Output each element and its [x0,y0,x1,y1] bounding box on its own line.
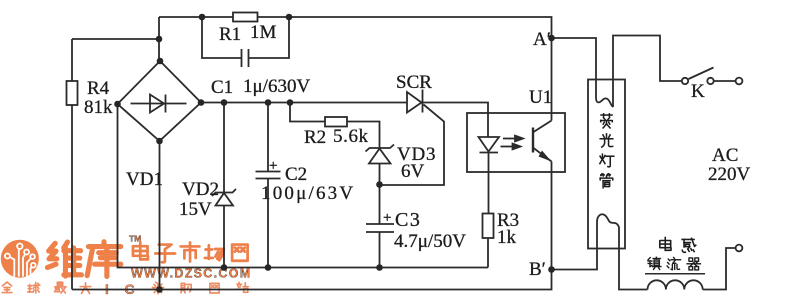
junction: C2 bottom junction [265,264,272,271]
wire VD2 branch [223,103,225,268]
wire SCR gate [380,105,445,186]
watermark slogan [2,282,12,292]
ballast underline [645,273,705,275]
junction: bridge right vertex [198,99,205,106]
wire lamp right pin to switch [613,36,682,108]
capacitor C2 plates [256,172,281,179]
svg-text:R4: R4 [87,78,110,99]
wire ballast to AC terminal [703,248,736,290]
svg-text:AC: AC [712,145,738,166]
watermark 维库 [47,242,81,276]
junction: R2 tap junction [287,99,294,106]
zener VD3 [369,149,391,164]
wire bottom AC rail to B' [72,162,552,290]
svg-text:R2: R2 [304,127,326,148]
svg-text:C2: C2 [285,164,307,185]
wire top rail [159,17,552,121]
svg-text:C1: C1 [211,77,233,98]
junction: VD2 top junction [221,99,228,106]
svg-text:5.6k: 5.6k [333,126,369,147]
wire B' to lamp [552,222,598,270]
svg-text:1μ/630V: 1μ/630V [243,76,310,97]
capacitor C3 plates [366,224,394,232]
wire R4 column [71,39,73,290]
svg-text:1M: 1M [250,22,277,43]
junction: node A' [548,35,555,42]
junction: R1C1 left node [199,14,206,21]
wire R1C1 left drop [202,17,242,58]
AC terminal bottom [736,245,743,252]
tube bottom filament [597,214,619,248]
junction: VD3-C3 node [376,181,383,188]
bridge rectifier VD1 diamond [118,61,202,141]
junction: bridge top vertex [157,58,164,65]
svg-text:VD2: VD2 [182,179,219,200]
U1 phototransistor [532,128,534,153]
wire R4 top link [72,38,159,40]
junction: C3 bottom junction [376,264,383,271]
U1 LED [479,137,500,152]
wire VD3-C3 column [379,164,381,268]
wire C2 branch [267,103,269,268]
svg-text:+: + [383,210,391,226]
switch K contacts and blade [682,78,688,84]
svg-text:1k: 1k [497,227,517,248]
junction: AC line junction [156,286,163,293]
svg-text:A′: A′ [533,29,551,50]
junction: node B' [548,266,555,273]
svg-text:K: K [691,81,705,102]
bridge inner diode [131,103,187,105]
tube top filament [596,80,613,108]
junction: R1C1 right node [286,14,293,21]
svg-text:81k: 81k [84,97,113,118]
junction: bridge left vertex [114,101,121,108]
svg-text:100μ/63V: 100μ/63V [261,183,355,204]
wire R2 tap [290,103,380,149]
resistor R2 body [325,117,347,127]
junction: bridge bottom vertex [156,138,163,145]
resistor R4 body [67,81,78,105]
fluorescent tube body [588,80,625,249]
wire R1C1 right drop [249,17,290,58]
resistor R1 body [233,13,258,22]
svg-text:220V: 220V [708,164,751,185]
zener VD2 [216,193,234,206]
svg-text:+: + [269,158,277,174]
wire bridge top drop [158,17,160,61]
AC terminal top [736,78,743,85]
svg-text:4.7μ/50V: 4.7μ/50V [394,231,466,252]
watermark logo circle [1,240,39,278]
watermark 电子市场网 [133,242,148,259]
U1 arrows [501,136,524,150]
label fluorescent tube 荧光灯管 [601,114,613,128]
wire main dc rail [201,103,488,138]
junction: VD2 bottom junction [221,264,228,271]
resistor R3 body [483,214,494,239]
svg-text:U1: U1 [529,87,552,108]
svg-text:B′: B′ [529,259,546,280]
SCR symbol [407,92,422,113]
optocoupler U1 box [467,113,565,172]
wire lamp bottom right pin to ballast [619,228,648,290]
label ballast 镇流器 [648,257,661,269]
inductor ballast coil [648,280,703,289]
svg-text:SCR: SCR [396,72,432,93]
wire bridge bottom drop [159,141,161,290]
svg-text:VD1: VD1 [126,169,163,190]
wire LED cathode to R3 [487,153,490,268]
wire bridge left to ground rail [118,104,489,268]
junction: C2 top junction [265,99,272,106]
junction: R4 top junction [156,36,163,43]
svg-text:WWW.DZSC.COM: WWW.DZSC.COM [131,267,251,281]
svg-text:6V: 6V [401,161,425,182]
svg-text:15V: 15V [179,199,212,220]
svg-text:R1: R1 [219,24,241,45]
svg-text:C3: C3 [395,209,421,231]
node A' wire to lamp top [552,38,597,98]
label ballast 电感 [660,238,671,251]
capacitor C1 plates [242,49,249,67]
